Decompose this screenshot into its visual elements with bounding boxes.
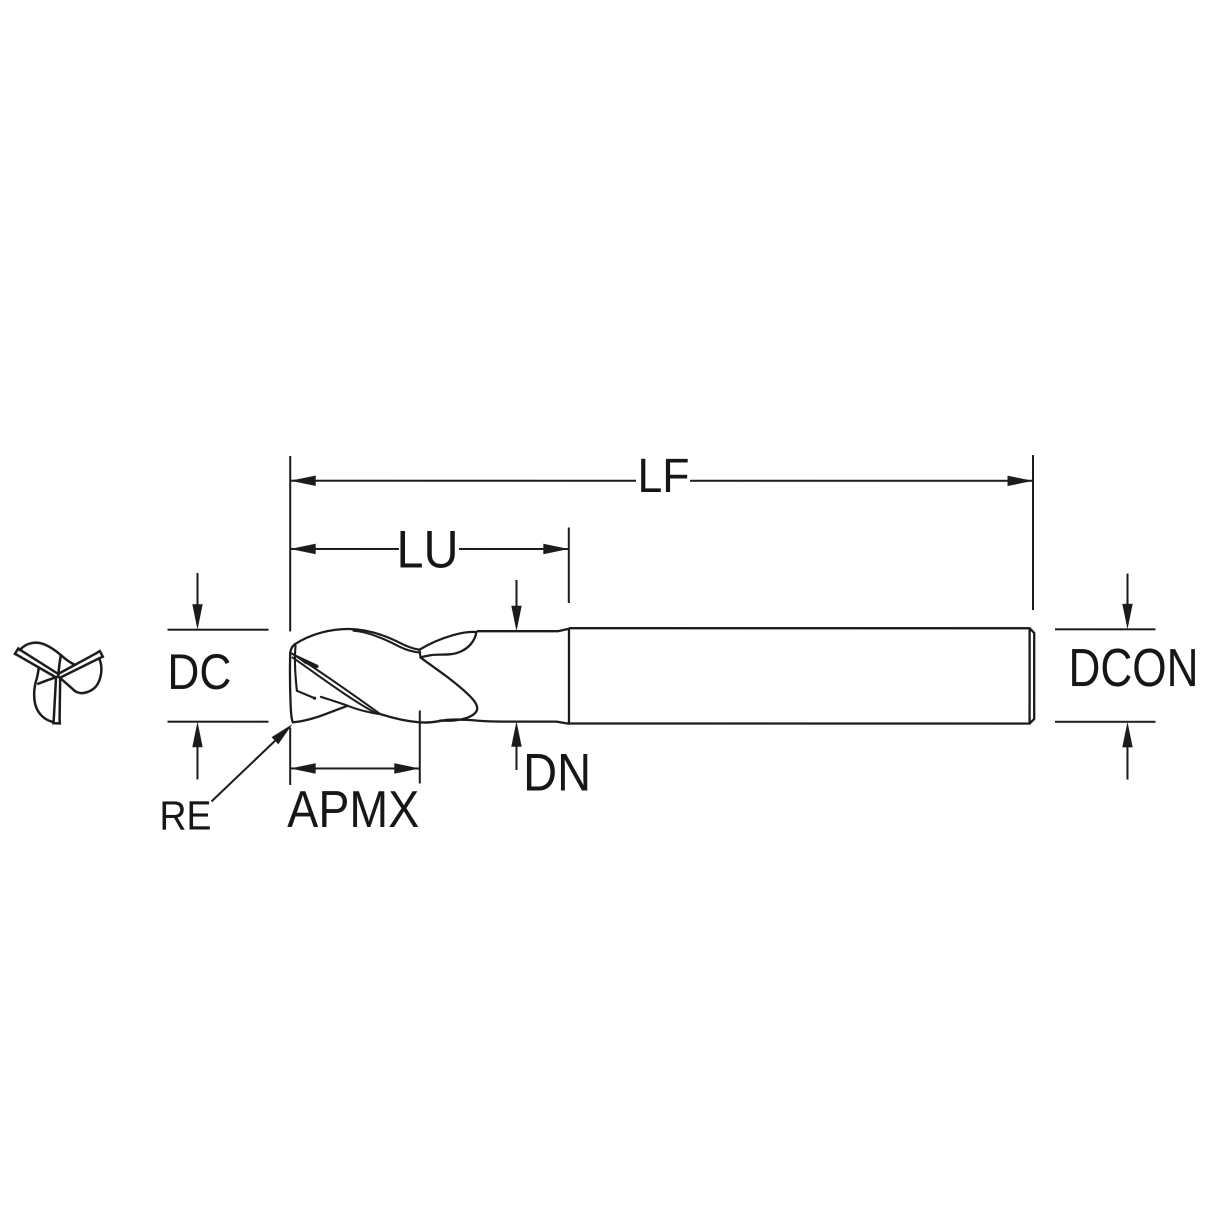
APMX left extension line xyxy=(289,727,291,785)
flute 2 wing bottom edge xyxy=(420,632,476,657)
DN bottom arrow tail xyxy=(515,744,517,770)
gash edge blob xyxy=(313,697,316,700)
tool tip corner radius (top-left) xyxy=(290,644,295,653)
DC bottom arrowhead xyxy=(192,722,202,748)
helix edge upper xyxy=(292,654,380,714)
DCON top arrowhead xyxy=(1122,604,1132,630)
LF dimension line right segment xyxy=(690,480,1033,482)
DC top extension line xyxy=(167,629,268,631)
svg-text:DCON: DCON xyxy=(1068,638,1198,698)
APMX right arrowhead xyxy=(394,763,420,773)
LF right extension line xyxy=(1032,455,1034,610)
DCON bottom arrowhead xyxy=(1122,722,1132,748)
LF left arrowhead xyxy=(290,476,316,486)
svg-text:DC: DC xyxy=(167,644,231,700)
svg-text:APMX: APMX xyxy=(287,781,419,839)
flute 1 big land (almond) edge xyxy=(421,658,478,721)
tool tip inner facet line xyxy=(295,646,297,691)
LF left extension line xyxy=(289,456,291,631)
LU right arrowhead xyxy=(543,544,569,554)
DN top arrow tail xyxy=(515,580,517,608)
APMX right extension line xyxy=(419,710,421,783)
RE leader line xyxy=(211,741,275,802)
DC top arrow tail xyxy=(197,573,199,607)
icon flute face AB (top hump) xyxy=(20,643,75,665)
APMX dimension line xyxy=(290,767,420,769)
RE leader arrowhead xyxy=(272,724,293,744)
LF right arrowhead xyxy=(1008,476,1034,486)
DCON top arrow tail xyxy=(1127,574,1129,608)
gash bottom arc (petal) xyxy=(293,706,348,723)
flute 1 land line (below hump) xyxy=(353,631,420,653)
icon radial edge AB xyxy=(58,655,61,675)
shank top line xyxy=(569,627,1030,629)
DCON top extension line xyxy=(1055,628,1156,630)
shank end chamfered edge xyxy=(1030,628,1035,723)
icon spoke B (right flute land) xyxy=(59,651,103,677)
tool tip left edge xyxy=(290,653,293,722)
DC bottom arrow tail xyxy=(196,745,198,780)
svg-text:LU: LU xyxy=(397,521,459,580)
neck-shank junction line xyxy=(568,629,570,724)
icon flute face CA (lower-left lobe) xyxy=(34,668,53,722)
flute 2 wing top edge xyxy=(420,632,477,650)
icon radial edge CA xyxy=(38,677,58,684)
notch tick xyxy=(419,649,420,658)
icon spoke A (upper-left flute land) xyxy=(15,648,58,677)
DC bottom extension line xyxy=(167,721,268,723)
LU dimension line right segment xyxy=(459,548,569,550)
LU left arrowhead xyxy=(290,544,316,554)
svg-text:RE: RE xyxy=(159,793,211,839)
shank end inner edge xyxy=(1028,628,1030,723)
shank bottom line xyxy=(569,722,1030,724)
neck top line xyxy=(477,629,569,632)
gash edge left xyxy=(297,691,315,699)
icon spoke C (bottom flute land) xyxy=(53,678,60,723)
APMX left arrowhead xyxy=(290,763,316,773)
LU right extension line xyxy=(568,527,570,603)
svg-text:DN: DN xyxy=(523,744,591,803)
end face wedge xyxy=(293,654,318,668)
icon radial edge BC xyxy=(59,677,75,691)
icon flute face BC (right lobe) xyxy=(75,660,101,694)
gash edge right xyxy=(321,697,379,714)
bottom silhouette xyxy=(380,714,569,724)
DN bottom arrowhead xyxy=(511,721,521,747)
DN top arrowhead xyxy=(511,606,521,632)
helix edge lower xyxy=(293,658,376,713)
DC top arrowhead xyxy=(192,604,202,630)
svg-text:LF: LF xyxy=(638,450,690,503)
LU dimension line left segment xyxy=(290,548,399,550)
flute 1 top silhouette (hump) xyxy=(295,629,420,650)
DCON bottom arrow tail xyxy=(1126,745,1128,780)
DCON bottom extension line xyxy=(1055,721,1156,723)
LF dimension line left segment xyxy=(290,480,636,482)
